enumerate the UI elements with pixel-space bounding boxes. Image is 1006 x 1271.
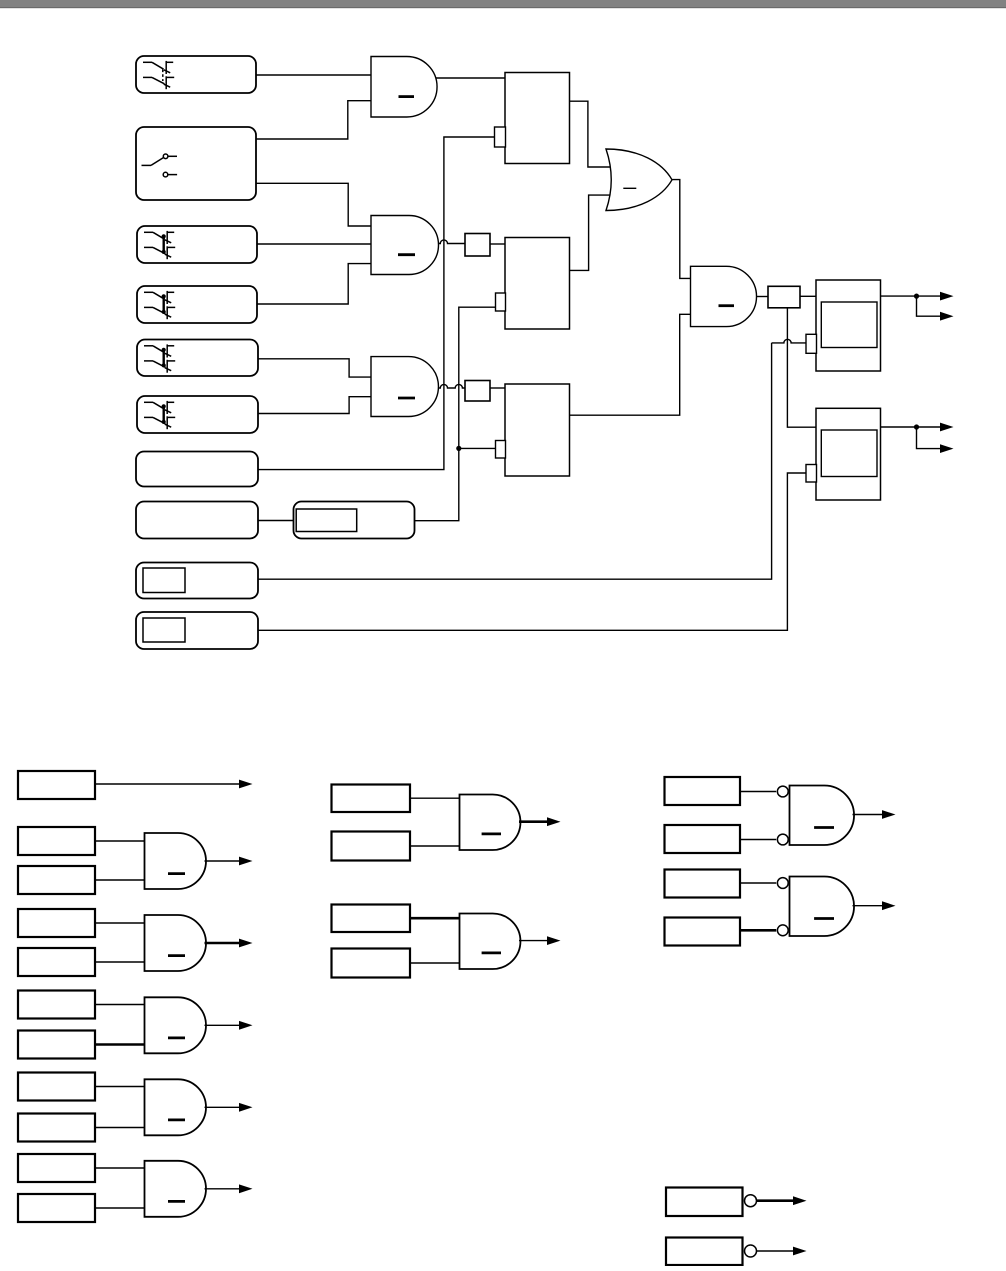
input block B1 (linked NC contacts, dashed) xyxy=(136,56,256,93)
wire M6a to gate xyxy=(95,1167,145,1169)
wire N2a to gate xyxy=(410,917,460,920)
junction dot xyxy=(456,446,461,451)
input block B2 (changeover switch) xyxy=(136,127,256,200)
arrow Q1n xyxy=(793,1196,807,1205)
AND gate GM2 xyxy=(460,914,521,970)
marker N1b xyxy=(332,832,411,861)
wire B6 to AND3 xyxy=(258,397,371,414)
Q1 reset-input pin xyxy=(806,334,817,353)
wire N1b to gate xyxy=(410,845,460,847)
wire GM2 out xyxy=(519,940,547,942)
arrow M1 xyxy=(239,780,253,789)
wire R3 out to AND4 xyxy=(570,314,691,415)
wire B5 to AND3 xyxy=(258,359,371,377)
arrow Q1a xyxy=(940,292,954,301)
marker P2b xyxy=(665,918,741,946)
arrow Q2n xyxy=(793,1247,807,1256)
wire T1 up to R2/R3 inputs xyxy=(415,307,497,521)
arrow GM2 xyxy=(547,936,561,945)
input block B9 xyxy=(136,563,258,599)
parameter box S2 xyxy=(465,234,490,257)
wire B3 to AND2 xyxy=(257,243,371,245)
input bubble GR2b xyxy=(777,925,788,936)
AND gate GR2 with negated inputs xyxy=(790,877,855,937)
input block B10 xyxy=(136,612,258,649)
wire GL4 out xyxy=(205,1024,240,1026)
AND gate G4 xyxy=(691,266,757,326)
input block B7 xyxy=(136,452,258,487)
input block B3 (linked NC contacts) xyxy=(137,226,257,263)
input block B8 xyxy=(136,502,258,539)
wire S4 down to output block Q2 xyxy=(787,308,816,427)
wire M2b to gate xyxy=(95,879,145,881)
top toolbar bar xyxy=(0,0,1006,8)
wire B8 to T1 xyxy=(258,520,294,522)
AND gate GL6 xyxy=(145,1161,207,1217)
marker M6b xyxy=(18,1194,95,1222)
wire P1a to gate xyxy=(740,791,776,793)
input block B4 (linked NC contacts) xyxy=(137,286,257,323)
wire P1b to gate xyxy=(740,839,776,841)
arrow GL5 xyxy=(239,1103,253,1112)
wire AND2 out to S2 (hop) xyxy=(437,240,466,244)
block R1 xyxy=(505,73,570,164)
wire GL3 out xyxy=(205,942,240,945)
wire branch to R3 set-input xyxy=(459,447,496,449)
wire OR out to AND4 xyxy=(671,180,691,279)
wire GL5 out xyxy=(205,1106,240,1108)
wire M3b to gate xyxy=(95,961,145,963)
OR gate G5 xyxy=(606,149,672,211)
marker P1a xyxy=(665,777,741,805)
marker Q1n xyxy=(666,1188,743,1217)
wire M5a to gate xyxy=(95,1086,145,1088)
output block Q1 xyxy=(816,280,881,371)
R2 set-input pin xyxy=(496,293,506,311)
wire N1a to gate xyxy=(410,797,460,799)
arrow Q1b xyxy=(940,312,954,321)
wire Q1n out (bold) xyxy=(757,1199,794,1202)
marker M2a xyxy=(18,827,95,855)
marker M4b xyxy=(18,1031,95,1059)
AND gate G3 xyxy=(371,357,438,417)
input block B5 (linked NC contacts) xyxy=(137,340,258,377)
wire GL2 out xyxy=(205,860,240,862)
marker M5a xyxy=(18,1073,95,1101)
marker M2b xyxy=(18,866,95,894)
block R2 xyxy=(505,238,570,330)
marker N1a xyxy=(332,785,411,813)
marker M5b xyxy=(18,1114,95,1142)
marker P1b xyxy=(665,825,741,853)
AND gate GR1 with negated inputs xyxy=(790,786,855,846)
wire Q2n out xyxy=(757,1250,794,1252)
marker M3b xyxy=(18,948,95,976)
input bubble GR1b xyxy=(777,834,788,845)
output bubble Q2n xyxy=(745,1245,757,1257)
wire GM1 out xyxy=(519,820,547,823)
wire M5b to gate xyxy=(95,1127,145,1129)
wire AND1 out to R1 xyxy=(434,77,505,79)
R1 set-input pin xyxy=(495,127,506,147)
wire M3a to gate xyxy=(95,922,145,924)
wire AND4 out to S4 xyxy=(755,296,768,298)
output bubble Q1n xyxy=(745,1195,757,1207)
wire M4a to gate xyxy=(95,1004,145,1006)
wire Q2 outputs xyxy=(881,426,942,428)
wire B2 top to AND1 xyxy=(256,101,371,139)
arrow GL4 xyxy=(239,1021,253,1030)
marker M3a xyxy=(18,909,95,937)
parameter box S4 xyxy=(768,286,800,308)
marker N2a xyxy=(332,905,411,933)
input block B6 (linked NC contacts) xyxy=(137,396,258,433)
wire GL6 out xyxy=(205,1188,240,1190)
marker Q2n xyxy=(666,1238,743,1266)
marker N2b xyxy=(332,949,411,978)
wire P2a to gate xyxy=(740,882,776,884)
wire R1 out to OR xyxy=(570,101,613,167)
AND gate GL3 xyxy=(145,915,207,971)
output block Q2 xyxy=(816,408,881,500)
wire AND3 out to S3 (two hops) xyxy=(437,384,466,388)
AND gate GM1 xyxy=(460,795,521,851)
marker M6a xyxy=(18,1154,95,1182)
marker M4a xyxy=(18,991,95,1019)
wire B4 to AND2 xyxy=(257,264,371,304)
wire R2 out to OR xyxy=(570,195,613,270)
AND gate GL2 xyxy=(145,833,207,889)
wire B10 up to Q2 reset-input xyxy=(258,473,806,630)
arrow Q2a xyxy=(940,423,954,432)
AND gate GL4 xyxy=(145,997,207,1053)
arrow GR1 xyxy=(882,810,896,819)
input bubble GR1a xyxy=(777,786,788,797)
wire GR1 out xyxy=(853,814,883,816)
wire P2b to gate xyxy=(740,929,776,932)
wire M1 out xyxy=(95,783,239,785)
AND gate GL5 xyxy=(145,1079,207,1135)
marker M1 xyxy=(18,771,95,799)
arrow GM1 xyxy=(547,817,561,826)
Q2 reset-input pin xyxy=(806,465,817,483)
wire GR2 out xyxy=(853,905,883,907)
wire M2a to gate xyxy=(95,840,145,842)
arrow GR2 xyxy=(882,901,896,910)
arrow GL3 xyxy=(239,939,253,948)
wire S4 to output block Q1 xyxy=(800,295,816,297)
wire Q1 outputs xyxy=(881,295,942,297)
block R3 xyxy=(505,384,570,476)
wire N2b to gate xyxy=(410,962,460,964)
parameter box S3 xyxy=(465,381,490,402)
wire S2 to R2 xyxy=(490,243,505,245)
wire M6b to gate xyxy=(95,1207,145,1209)
timer block T1 xyxy=(294,502,415,539)
R3 set-input pin xyxy=(496,441,506,459)
wire S3 to R3 xyxy=(490,387,505,389)
arrow GL6 xyxy=(239,1184,253,1193)
input bubble GR2a xyxy=(777,878,788,889)
arrow Q2b xyxy=(940,444,954,453)
wire B2 bottom to AND2 xyxy=(256,183,371,226)
wire B7 up to R1 set-input xyxy=(258,137,495,470)
wire B9 up to Q1 reset-input (hop) xyxy=(258,343,772,579)
AND gate G2 xyxy=(371,216,439,275)
AND gate G1 xyxy=(371,57,437,118)
wire B1 to AND1 xyxy=(256,74,371,76)
arrow GL2 xyxy=(239,857,253,866)
wire M4b to gate xyxy=(95,1043,145,1046)
marker P2a xyxy=(665,870,741,898)
